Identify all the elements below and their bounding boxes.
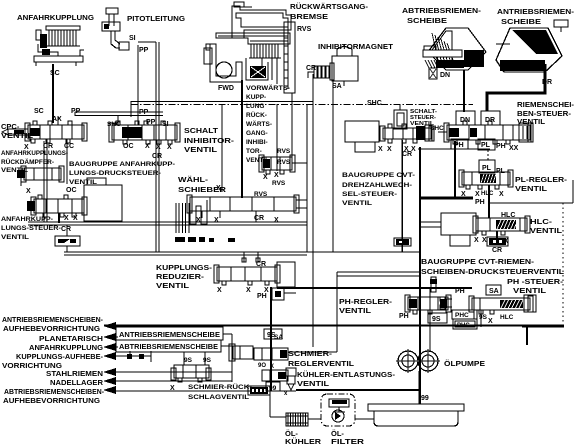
label CR (hlc) <box>492 247 502 254</box>
pulley abtrieb details <box>423 50 462 79</box>
sump oil pan <box>368 404 464 426</box>
svg-text:KUPPLUNGS-AUFHEBE-: KUPPLUNGS-AUFHEBE- <box>16 354 104 361</box>
label OC X X X (v2) <box>123 143 172 151</box>
svg-text:SI: SI <box>162 121 169 128</box>
svg-text:X: X <box>482 237 487 244</box>
label CR (v2) <box>152 153 162 160</box>
svg-text:BAUGRUPPE ANFAHRKUPP-: BAUGRUPPE ANFAHRKUPP- <box>69 161 175 168</box>
label RVS (waehl) <box>254 191 268 198</box>
svg-text:9O: 9O <box>258 363 266 369</box>
svg-text:X: X <box>170 385 175 392</box>
svg-text:SCHMIER-: SCHMIER- <box>288 349 333 358</box>
valve drehzahlwechsel <box>380 124 434 143</box>
svg-text:X: X <box>488 318 493 325</box>
svg-text:INHIBI-: INHIBI- <box>246 139 268 146</box>
arrow label y381 <box>50 377 116 387</box>
svg-text:HLC: HLC <box>500 314 514 321</box>
filter oel-filter <box>321 394 355 426</box>
svg-text:VENTIL: VENTIL <box>184 145 218 154</box>
wire rw link <box>292 162 307 164</box>
label X (daempfer) <box>26 188 31 195</box>
svg-text:LUNGS-STEUER-: LUNGS-STEUER- <box>1 225 61 232</box>
port box DR <box>481 111 500 125</box>
svg-text:X: X <box>499 191 504 198</box>
svg-text:9S: 9S <box>184 357 193 364</box>
wire box1 link <box>223 333 232 335</box>
label X X XX (hlc) <box>474 237 509 245</box>
label PH (steuer) <box>455 288 465 295</box>
valve schmier-rueckschlag <box>171 365 211 382</box>
label SC (cpc) <box>34 108 44 115</box>
svg-text:FWD: FWD <box>218 85 234 92</box>
label PL-REGLER-VENTIL <box>515 177 568 193</box>
svg-text:9S: 9S <box>432 316 441 323</box>
label DR (pulley) <box>542 79 552 86</box>
wire thick y390 <box>296 389 421 391</box>
port box 9S <box>428 313 447 323</box>
wire right edge x573 <box>572 180 574 203</box>
cooler oel-kuehler <box>286 413 308 426</box>
label OEL-KUEHLER <box>285 429 322 446</box>
svg-text:ANFAHRKUPPLUNG: ANFAHRKUPPLUNG <box>17 13 94 22</box>
valve kuehler-entlastung <box>286 368 296 390</box>
valve schmier-regler C <box>262 370 288 381</box>
label ANFAHRKUPP-LUNGS-STEUER-VENTIL <box>1 216 61 241</box>
label SHC (right) <box>430 125 444 132</box>
svg-text:X: X <box>214 217 219 224</box>
svg-text:HLC-: HLC- <box>530 219 553 226</box>
block solenoid drehzahl <box>345 121 379 152</box>
valve pl-regler <box>459 170 513 189</box>
wire PHC pair drop <box>477 310 481 327</box>
svg-text:SA: SA <box>274 334 283 341</box>
svg-text:SCHLAGVENTIL: SCHLAGVENTIL <box>188 394 249 401</box>
label HLC (above) <box>501 212 515 219</box>
wire CC down x67 <box>66 139 68 184</box>
valve ph-regler <box>405 295 451 314</box>
svg-text:CPC-: CPC- <box>1 122 20 131</box>
svg-text:KÜHLER: KÜHLER <box>285 437 322 446</box>
svg-text:CR: CR <box>256 261 266 268</box>
wire pump down 99 <box>418 371 420 404</box>
valve ph-steuer <box>469 295 536 314</box>
svg-text:X: X <box>378 146 383 153</box>
svg-text:X: X <box>387 146 392 153</box>
svg-text:KUPPLUNGS-: KUPPLUNGS- <box>156 263 213 272</box>
svg-text:SHC: SHC <box>367 100 382 107</box>
arrow label y326 <box>2 317 116 333</box>
label BAUGRUPPE CVT-DREHZAHLWECH-SEL-STEUER-VENTIL <box>342 172 415 207</box>
valve schalt-steuerventil box <box>394 104 407 129</box>
svg-text:ANFAHRKUPPLUNGS-: ANFAHRKUPPLUNGS- <box>1 151 68 157</box>
component orifice r7 <box>248 386 270 395</box>
wire box drops <box>184 352 205 365</box>
wire SA feed <box>288 326 337 352</box>
svg-text:OC: OC <box>66 187 77 194</box>
label RIEMENSCHEIBEN-STEUERVENTIL <box>517 102 575 126</box>
wire solenoid down <box>332 80 334 252</box>
svg-text:PHC: PHC <box>455 312 469 319</box>
svg-text:X: X <box>274 172 279 179</box>
wire reduzier down <box>270 287 272 295</box>
label RUECK-WAERTS-GANG-INHIBI-TOR-VENTIL <box>246 110 272 164</box>
svg-text:AX: AX <box>52 116 62 123</box>
svg-text:VENTIL: VENTIL <box>339 306 371 315</box>
svg-text:X: X <box>474 237 479 244</box>
wire trunk x420 <box>419 147 421 404</box>
port box SA (steuer) <box>486 285 501 295</box>
svg-text:X: X <box>64 215 69 222</box>
svg-text:PH -STEUER-: PH -STEUER- <box>507 277 564 286</box>
wire daempfer link <box>43 180 45 199</box>
label ANTRIEBSRIEMENSCHEIBE <box>497 7 575 26</box>
label X above waehl <box>216 185 221 192</box>
svg-text:SC: SC <box>50 70 60 77</box>
label PP (cpc) <box>71 108 81 115</box>
svg-text:99: 99 <box>421 395 429 402</box>
wire 99 drop <box>269 391 271 417</box>
label WAEHL-SCHIEBER <box>178 175 227 194</box>
block solenoid hlc <box>441 213 476 246</box>
label SI (pitot) <box>129 35 136 42</box>
label PH (regler) <box>399 313 409 320</box>
label SCHALT INHIBITOR-VENTIL <box>184 126 235 154</box>
label RVS X (waehl right) <box>272 172 286 187</box>
block accumulator CC <box>80 178 122 221</box>
svg-text:RVS: RVS <box>254 191 268 198</box>
svg-text:AUFHEBEVORRICHTUNG: AUFHEBEVORRICHTUNG <box>3 398 101 405</box>
valve hlc <box>473 216 530 235</box>
selector waehlschieber <box>175 195 299 242</box>
label OEL-FILTER <box>331 429 365 446</box>
label CPC-VENTIL <box>1 122 33 140</box>
label ANFAHRKUPPLUNG <box>17 13 94 22</box>
wire DN down <box>463 70 465 112</box>
label SCHMIER-RUECK-SCHLAGVENTIL <box>188 382 252 401</box>
wire box bottom y327 <box>522 326 564 328</box>
svg-text:9S: 9S <box>203 357 212 364</box>
svg-text:SCHEIBE: SCHEIBE <box>407 16 447 25</box>
label SCHALT-STEUER-VENTIL (small) <box>410 109 437 127</box>
svg-text:TOR-: TOR- <box>246 148 262 155</box>
wire PP pair down <box>138 42 159 252</box>
svg-text:X: X <box>73 215 78 222</box>
svg-text:X: X <box>216 185 221 192</box>
label X (rw inhibitor) <box>263 174 268 181</box>
wire hlc left lines <box>420 222 441 227</box>
pitot fitting <box>102 8 129 50</box>
svg-text:99: 99 <box>269 385 277 392</box>
svg-text:KÜHLER-ENTLASTUNGS-: KÜHLER-ENTLASTUNGS- <box>297 370 396 379</box>
label ABTRIEBSRIEMENSCHEIBE <box>402 6 482 25</box>
svg-text:XX: XX <box>509 145 519 152</box>
svg-text:OC: OC <box>123 143 134 150</box>
svg-text:PH: PH <box>475 199 485 206</box>
svg-text:BEN-STEUER-: BEN-STEUER- <box>517 111 572 118</box>
wire 99-kuehler <box>270 416 286 418</box>
svg-text:PP: PP <box>139 47 149 54</box>
label X X X (reduzier) <box>217 287 269 294</box>
wire arrow r2 stub <box>112 336 118 338</box>
svg-text:CR: CR <box>43 143 53 150</box>
label X X (steuer) <box>64 215 78 222</box>
svg-text:FILTER: FILTER <box>331 437 365 446</box>
wire gallery dashdot <box>131 104 473 106</box>
wire collector x232 <box>231 334 233 382</box>
label PH PL PH XX (v4) <box>451 139 519 152</box>
label OELPUMPE <box>444 359 485 368</box>
component PH fitting <box>272 288 296 300</box>
pulley antriebsriemenscheibe <box>496 20 568 72</box>
label PP (v2a) <box>139 109 149 116</box>
label PH-STEUER-VENTIL <box>507 277 564 295</box>
svg-text:PH: PH <box>454 142 464 149</box>
valve anfahrkupplungs-steuer <box>27 195 87 217</box>
wire box top y203 <box>490 202 573 204</box>
svg-text:CC: CC <box>64 143 74 150</box>
svg-text:X: X <box>196 217 201 224</box>
svg-text:RÜCK-: RÜCK- <box>246 110 267 119</box>
svg-text:STAHLRIEMEN: STAHLRIEMEN <box>46 371 103 378</box>
svg-text:SCHMIER-RÜCK-: SCHMIER-RÜCK- <box>188 382 252 391</box>
svg-text:RÜCKWÄRTSGANG-: RÜCKWÄRTSGANG- <box>290 2 369 11</box>
svg-text:WÄRTS-: WÄRTS- <box>246 120 272 128</box>
label DN (pulley) <box>440 72 450 79</box>
label PITOTLEITUNG <box>127 14 185 23</box>
wire AX stub <box>57 117 59 125</box>
port box ANTRIEBSRIEMENSCHEIBE <box>116 327 223 340</box>
valve schmier-regler B <box>254 348 288 360</box>
wire SA trunk <box>312 74 314 347</box>
svg-text:ABTRIEBSRIEMENSCHEIBE: ABTRIEBSRIEMENSCHEIBE <box>119 344 218 351</box>
svg-text:CR: CR <box>61 226 71 233</box>
wire RVS down <box>291 93 293 158</box>
svg-text:REDUZIER-: REDUZIER- <box>156 272 205 281</box>
wire trunk x271 <box>270 295 272 391</box>
label PH (reduzier) <box>257 293 267 300</box>
svg-text:BAUGRUPPE CVT-RIEMEN-: BAUGRUPPE CVT-RIEMEN- <box>421 257 535 266</box>
arrow label y390 <box>3 386 116 405</box>
svg-text:LUNGS-DRUCKSTEUER-: LUNGS-DRUCKSTEUER- <box>69 170 161 177</box>
svg-text:CR: CR <box>492 247 502 254</box>
wire steuer left stubs <box>440 297 452 309</box>
label AX <box>52 116 62 123</box>
svg-text:VENTIL: VENTIL <box>530 228 563 235</box>
valve rueckdaempfer <box>17 166 64 186</box>
wire arrow r6 line <box>112 380 232 382</box>
wire box top y147 <box>418 148 490 150</box>
wire box edge dotted x563 <box>562 203 564 327</box>
port box 9S (x271) <box>264 329 282 339</box>
svg-text:DREHZAHLWECH-: DREHZAHLWECH- <box>342 182 412 189</box>
svg-text:X: X <box>24 144 29 151</box>
svg-text:9S: 9S <box>479 314 488 321</box>
wire arrow r7 line <box>112 390 296 392</box>
wire reduzier stubs <box>244 252 258 262</box>
svg-text:SA: SA <box>489 288 499 295</box>
port box DN <box>456 111 475 125</box>
svg-text:RVS: RVS <box>272 180 286 187</box>
svg-text:SCHEIBE: SCHEIBE <box>501 17 541 26</box>
label KUEHLER-ENTLASTUNGS-VENTIL <box>297 370 396 388</box>
label X X CR X below waehl <box>196 215 279 224</box>
svg-text:PP: PP <box>139 109 149 116</box>
svg-text:X: X <box>270 364 274 370</box>
svg-text:HLC: HLC <box>481 191 494 197</box>
wire gallery CR mid <box>28 222 307 225</box>
wire PP channel pair <box>75 112 163 116</box>
wire filter-sump <box>355 418 374 420</box>
svg-text:PH-REGLER-: PH-REGLER- <box>339 297 393 306</box>
valve kupplungs-reduzier <box>214 258 295 287</box>
wire waehl right lines <box>296 200 307 208</box>
svg-text:SEL-STEUER-: SEL-STEUER- <box>342 191 397 198</box>
svg-text:ANTRIEBSRIEMEN-: ANTRIEBSRIEMEN- <box>497 7 575 16</box>
wire gallery PP top <box>131 101 313 103</box>
label X (rueckschlag) <box>170 385 175 392</box>
svg-text:RIEMENSCHEI-: RIEMENSCHEI- <box>517 102 575 109</box>
label VORWAERTS-KUPP-LUNG <box>246 84 290 110</box>
label KUPPLUNGS-REDUZIER-VENTIL <box>156 263 213 290</box>
wire trunk x307 <box>306 104 308 252</box>
svg-text:VORRICHTUNG: VORRICHTUNG <box>2 363 63 370</box>
label PP (pitot) <box>139 47 149 54</box>
svg-text:PL: PL <box>482 165 492 172</box>
svg-text:ANTRIEBSRIEMENSCHEIBE: ANTRIEBSRIEMENSCHEIBE <box>119 332 220 339</box>
svg-text:RÜCKDÄMPFER-: RÜCKDÄMPFER- <box>1 159 54 166</box>
label 9S X HLC (steuer) <box>479 314 514 325</box>
svg-text:VENTIL: VENTIL <box>342 200 372 207</box>
wire kuehler-filter <box>308 418 321 420</box>
svg-text:DN: DN <box>440 72 450 79</box>
arrow label y356 <box>2 352 116 370</box>
svg-text:PH: PH <box>455 288 465 295</box>
label 9O X (schmier) <box>258 363 274 370</box>
port box 99 <box>266 382 280 392</box>
svg-text:X: X <box>156 144 161 151</box>
valve CPC <box>2 121 87 143</box>
svg-text:ABTRIEBSRIEMEN-: ABTRIEBSRIEMEN- <box>402 6 482 15</box>
label x (entlastung) <box>284 391 288 397</box>
svg-text:PP: PP <box>146 119 156 126</box>
pulley abtriebsriemenscheibe <box>424 28 486 70</box>
clutch vorwaertskupplung <box>204 2 291 84</box>
label 9S 9S (drops) <box>184 357 212 364</box>
label BAUGRUPPE CVT-RIEMEN-SCHEIBEN-DRUCKSTEUERVENTIL <box>421 257 564 276</box>
svg-text:ANFAHRKUPPLUNG: ANFAHRKUPPLUNG <box>29 345 104 352</box>
svg-text:X: X <box>217 287 222 294</box>
svg-text:X: X <box>145 143 150 150</box>
port box ABTRIEBSRIEMENSCHEIBE <box>116 340 221 352</box>
label 99 (sump) <box>421 395 429 402</box>
label CR (inhibitor) <box>306 65 316 72</box>
wire HLC drop <box>488 185 490 218</box>
label PH (y204) <box>475 199 485 206</box>
svg-text:VENTIL: VENTIL <box>513 286 547 295</box>
label CR (v3) <box>402 151 412 158</box>
wire PH drop x455 <box>454 141 456 198</box>
svg-text:REGLERVENTIL: REGLERVENTIL <box>288 359 354 368</box>
svg-text:KUPP-: KUPP- <box>246 94 266 101</box>
svg-text:PL: PL <box>481 142 491 149</box>
label CR (y231) <box>61 226 71 233</box>
svg-text:PL-REGLER-: PL-REGLER- <box>515 177 568 184</box>
svg-text:INHIBITORMAGNET: INHIBITORMAGNET <box>318 42 393 51</box>
wire SI down <box>137 45 139 125</box>
wire FWD clutch down <box>241 80 243 198</box>
svg-text:RVS: RVS <box>277 159 291 166</box>
label RUECKWAERTSGANG-BREMSE <box>290 2 369 21</box>
svg-text:VENTIL: VENTIL <box>156 281 190 290</box>
label INHIBITORMAGNET <box>318 42 393 51</box>
component fitting x433 <box>430 277 437 292</box>
svg-text:ANTRIEBSRIEMENSCHEIBEN-: ANTRIEBSRIEMENSCHEIBEN- <box>2 317 104 324</box>
wire SC down <box>52 64 54 123</box>
label OC (block) <box>66 187 77 194</box>
svg-text:INHIBITOR-: INHIBITOR- <box>184 136 235 145</box>
label X X HLC X (pl) <box>461 191 504 198</box>
label PH-REGLER-VENTIL <box>339 297 393 315</box>
svg-text:SHC: SHC <box>107 121 121 128</box>
svg-text:CR: CR <box>306 65 316 72</box>
label SA (schmier) <box>274 334 283 341</box>
svg-text:SC: SC <box>34 108 44 115</box>
svg-text:BAUGRUPPE CVT-: BAUGRUPPE CVT- <box>342 172 415 179</box>
pump oelpumpe <box>396 349 440 373</box>
label SI (v2) <box>162 121 169 128</box>
label X X XX (v3) <box>378 146 416 153</box>
component orifice CR trunk <box>394 238 411 246</box>
svg-text:RVS: RVS <box>277 148 291 155</box>
wire gallery corner <box>130 101 132 117</box>
svg-text:ABTRIEBSRIEMENSCHEIBEN-: ABTRIEBSRIEMENSCHEIBEN- <box>4 389 105 396</box>
wire arrow r3 stub <box>112 346 118 348</box>
wire RVS drop <box>276 104 278 171</box>
label FWD <box>218 85 234 92</box>
wire arrow r4 line <box>112 351 151 362</box>
label SHC (left) <box>367 100 382 107</box>
label CR (reduzier) <box>256 261 266 268</box>
solenoid inhibitormagnet <box>314 46 358 86</box>
valve schmier-regler A <box>229 344 253 361</box>
svg-text:PP: PP <box>71 108 81 115</box>
label RVS RVS (left edge) <box>277 148 291 166</box>
port box PHC b <box>453 319 477 329</box>
arrow label y372 <box>46 368 116 378</box>
wire thick y288 <box>277 287 472 289</box>
svg-text:NADELLAGER: NADELLAGER <box>50 380 103 387</box>
svg-text:VENTIL: VENTIL <box>297 379 329 388</box>
svg-text:WÄHL-: WÄHL- <box>178 175 209 184</box>
svg-text:PLANETARISCH: PLANETARISCH <box>39 336 103 343</box>
wire SHC left stub <box>438 131 447 133</box>
label HLC-VENTIL <box>530 219 563 235</box>
label SHC (v2) <box>107 116 121 128</box>
valve riemenscheiben-steuer <box>444 121 533 144</box>
wire CR inhibitor <box>308 72 314 78</box>
brake rueckwaertsgang <box>284 22 295 93</box>
label ANFAHRKUPPLUNGS-RUECKDAEMPFER-VENTIL <box>1 151 68 174</box>
svg-text:AUFHEBEVORRICHTUNG: AUFHEBEVORRICHTUNG <box>3 326 101 333</box>
wire CR down x47 <box>44 139 47 222</box>
wire PL dotted drop <box>487 150 489 161</box>
wire arrow r5 line <box>112 371 232 373</box>
wire thick y326 <box>104 325 564 327</box>
valve rueckwaerts-inhibitor <box>259 155 295 174</box>
wire box2 link <box>221 345 233 347</box>
svg-text:GANG-: GANG- <box>246 130 268 137</box>
svg-text:PITOTLEITUNG: PITOTLEITUNG <box>127 14 185 23</box>
